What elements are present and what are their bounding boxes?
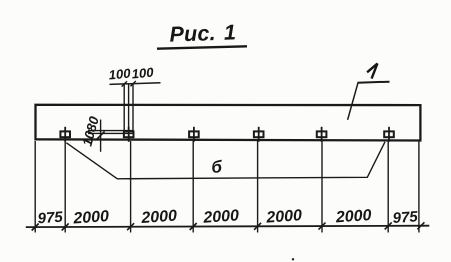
svg-text:б: б [211,157,223,177]
svg-text:975: 975 [392,208,419,227]
tick on vertical dimension [97,131,105,139]
lifting loop anchor mark 3 [189,127,199,142]
sling trapezoid line Б [66,142,385,179]
lifting loop rods (triple verticals at mark 2) [124,84,133,134]
lifting loop anchor mark 2 [124,127,134,142]
extension line at mark 2 [130,141,132,233]
bottom dimension line [26,226,430,227]
extension line at mark 1 [64,141,66,233]
lifting loop anchor mark 5 [317,127,327,142]
small vertical dimension line (loop depth) [100,120,102,152]
svg-text:2000: 2000 [334,207,372,227]
extension line at mark 4 [257,141,259,233]
label 1 [367,64,377,79]
extension line right end [418,141,420,233]
lifting loop anchor mark 4 [254,127,264,142]
svg-text:Рис. 1: Рис. 1 [169,20,236,46]
beam outline (panel body) [36,105,421,141]
extension line left end [34,141,36,233]
svg-text:2000: 2000 [265,207,303,227]
svg-text:2000: 2000 [202,207,240,227]
extension line at mark 3 [192,141,194,233]
lifting loop anchor mark 6 [384,127,394,142]
leader line for label 1 [348,82,359,119]
svg-text:2000: 2000 [140,208,178,228]
loop anchor horizontal bars [88,131,133,134]
dimension ticks [32,222,425,230]
svg-text:975: 975 [37,209,64,228]
svg-text:2000: 2000 [72,208,110,228]
lifting loop anchor mark 1 [60,127,70,142]
tick marks on top dimension [122,81,136,87]
extension line at mark 5 [321,141,323,233]
stray ink speck [292,258,294,260]
top dimension line (100 100) [110,83,161,85]
svg-text:100: 100 [131,65,155,82]
title underline [157,46,247,48]
svg-text:100: 100 [108,66,132,83]
extension line at mark 6 [387,141,389,233]
